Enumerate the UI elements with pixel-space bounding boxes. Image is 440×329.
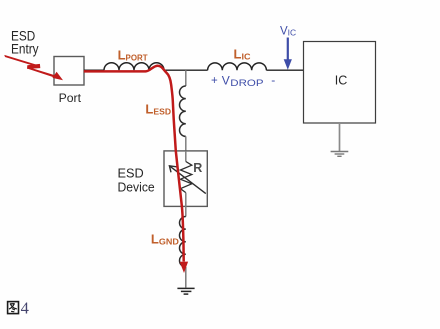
red arrowhead at ground [180, 262, 189, 273]
IC ground stem [339, 123, 341, 151]
wire L_IC to IC [266, 69, 303, 71]
ESD Entry label [11, 28, 39, 56]
V_IC arrow [287, 38, 289, 62]
ESD device box [164, 151, 207, 207]
inductor L_IC [208, 63, 267, 70]
IC box [304, 42, 376, 124]
svg-text:VIC: VIC [280, 25, 296, 37]
Port box [54, 57, 84, 86]
svg-text:Entry: Entry [11, 42, 39, 57]
variable resistor arrow [169, 166, 205, 194]
svg-text:DROP: DROP [230, 78, 263, 89]
node junction branch [185, 70, 187, 86]
svg-text:-: - [271, 73, 275, 87]
svg-text:R: R [193, 161, 202, 175]
inductor L_ESD [180, 86, 186, 136]
figure caption 图4 [8, 302, 19, 314]
wire port to L_PORT [84, 69, 104, 71]
svg-text:+: + [211, 75, 218, 87]
wire into resistor [185, 151, 187, 162]
ground [177, 288, 194, 294]
V_DROP label [211, 73, 275, 89]
ESD current path (red) [84, 66, 184, 262]
svg-text:IC: IC [335, 73, 348, 87]
wire L_PORT to L_IC [164, 69, 208, 71]
svg-text:Device: Device [118, 179, 155, 194]
wire resistor to box bottom [185, 193, 187, 217]
inductor L_PORT [104, 63, 164, 71]
ESD strike arrow [4, 55, 63, 80]
ESD Device label [118, 166, 155, 195]
svg-text:4: 4 [21, 299, 29, 318]
wire L_ESD to ESD device [185, 136, 187, 151]
svg-text:Port: Port [59, 91, 82, 105]
wire L_GND to ground [185, 267, 187, 288]
svg-text:V: V [222, 73, 230, 87]
inductor L_GND [180, 217, 186, 267]
resistor R zigzag [180, 162, 191, 193]
IC ground [331, 152, 349, 157]
